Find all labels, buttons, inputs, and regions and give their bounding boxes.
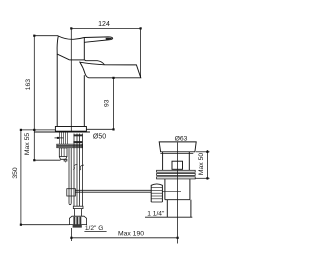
extension line spout tip	[140, 28, 142, 77]
dimension 163	[33, 35, 58, 130]
washer plates	[57, 144, 82, 145]
pop-up knob	[151, 184, 162, 202]
threaded shank	[60, 133, 68, 145]
svg-text:93: 93	[104, 99, 111, 107]
rod axis into body	[162, 191, 181, 193]
dimension 350	[20, 129, 70, 226]
clamp nut	[59, 148, 67, 159]
hose ferrule	[73, 206, 83, 208]
drain neck	[163, 152, 190, 170]
overflow square	[172, 161, 183, 169]
drain collar line	[160, 153, 193, 155]
drain tailpiece	[145, 200, 192, 218]
supply hose A	[74, 134, 77, 207]
handle base	[57, 36, 70, 60]
svg-text:1 1/4": 1 1/4"	[147, 210, 165, 217]
deck extension line left	[21, 129, 56, 131]
dimension Max55	[33, 129, 60, 162]
drain lower body	[165, 179, 190, 200]
dimension 124 line	[70, 27, 142, 29]
locknut plates	[157, 170, 196, 179]
svg-text:163: 163	[25, 79, 32, 91]
svg-text:124: 124	[98, 21, 110, 28]
connector neck	[75, 209, 82, 217]
spout step joint	[84, 60, 104, 65]
faucet lever handle	[58, 36, 112, 42]
svg-text:Ø50: Ø50	[93, 134, 106, 141]
svg-text:Max 50: Max 50	[198, 153, 205, 176]
svg-text:Max 190: Max 190	[118, 231, 144, 238]
svg-text:Ø63: Ø63	[175, 135, 188, 142]
extension line faucet centerline	[70, 28, 72, 131]
label 1/2 G	[84, 225, 106, 232]
leader line O50	[86, 128, 113, 130]
faucet body column	[57, 38, 84, 127]
drain top flange	[159, 142, 196, 152]
lift rod	[69, 148, 71, 205]
svg-text:Max 55: Max 55	[24, 133, 31, 156]
dimension 93 line	[112, 77, 114, 131]
svg-text:350: 350	[12, 167, 19, 179]
spout	[80, 62, 141, 78]
rod coupling block	[67, 189, 76, 196]
dimension Max 50	[195, 150, 209, 180]
deck bottom tick	[55, 137, 64, 139]
hose nipple bars	[73, 134, 82, 143]
hose break marks	[73, 164, 84, 170]
drain centerline	[177, 143, 179, 244]
dimension Max 190	[70, 228, 178, 241]
connector nut 1/2G	[69, 216, 86, 227]
base flange	[55, 127, 86, 132]
horizontal pop-up rod	[75, 190, 151, 192]
stud stub and tip	[64, 159, 67, 163]
supply hose B	[80, 134, 83, 207]
deck line	[34, 131, 90, 133]
